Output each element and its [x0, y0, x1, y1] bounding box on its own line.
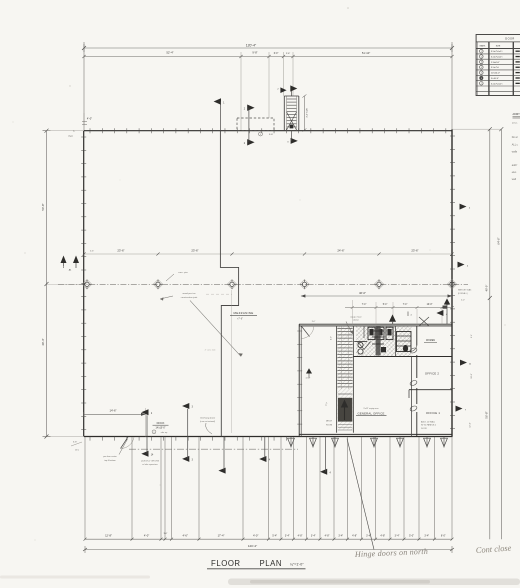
faint extension line x=231.5 [231, 290, 233, 433]
column centerline [58, 283, 468, 285]
svg-text:5'-4": 5'-4" [272, 534, 277, 537]
office room labels [326, 372, 440, 430]
svg-text:equip. mezz: equip. mezz [350, 316, 361, 318]
svg-text:4'-6": 4'-6" [183, 533, 188, 537]
svg-text:49'-4": 49'-4" [41, 338, 45, 345]
keynote arrow at x=224 [218, 437, 225, 474]
east wall [450, 130, 455, 437]
drawing title FLOOR PLAN [207, 559, 306, 569]
office east interior wall [412, 326, 417, 437]
svg-text:12'-8": 12'-8" [470, 422, 472, 428]
hinge doors leader line [347, 439, 374, 550]
overhang note [200, 416, 216, 434]
keynote arrow pair at x=187.7 [182, 403, 194, 462]
svg-text:3'-4" CLR: 3'-4" CLR [307, 108, 309, 118]
svg-text:4: 4 [411, 314, 413, 316]
east dimension line 64'-6" [496, 127, 503, 539]
svg-text:(can not extend): (can not extend) [200, 420, 215, 423]
left bottom corner annotations [71, 441, 82, 451]
svg-text:4: 4 [481, 67, 482, 69]
svg-text:A4: A4 [69, 269, 72, 272]
office1/office2 dividing wall [409, 389, 453, 391]
svg-text:4'-8": 4'-8" [380, 534, 385, 537]
svg-text:10'-0": 10'-0" [427, 304, 433, 306]
door symbol ellipses [409, 347, 417, 354]
svg-text:5'-0": 5'-0" [461, 300, 465, 302]
keynote arrows along east wall [456, 204, 472, 412]
svg-text:4: 4 [467, 265, 469, 267]
svg-text:above: above [353, 320, 360, 322]
svg-text:3'-4": 3'-4" [395, 534, 400, 537]
extension line stair right x=293 [292, 52, 294, 96]
svg-text:40'-0": 40'-0" [485, 285, 489, 292]
svg-text:5: 5 [481, 72, 482, 74]
svg-text:9'x12' equip area: 9'x12' equip area [363, 408, 379, 410]
interior stair treads [337, 327, 352, 430]
svg-text:OFFICE 1: OFFICE 1 [426, 411, 440, 415]
office north wall [299, 324, 453, 326]
svg-text:5'-6": 5'-6" [90, 250, 94, 252]
svg-text:GENERAL OFFICE: GENERAL OFFICE [357, 411, 384, 415]
column C3 [227, 279, 237, 289]
hollow door triangles below office south wall [288, 437, 448, 448]
svg-text:9'-0": 9'-0" [326, 402, 329, 406]
restroom fixtures [354, 327, 411, 354]
svg-text:add f: add f [512, 164, 518, 167]
south dimension line with ticks [84, 533, 454, 541]
svg-text:OFFICE 2: OFFICE 2 [425, 372, 439, 376]
svg-text:2'-8x6'-8": 2'-8x6'-8" [491, 62, 500, 64]
left office room annotations [306, 321, 333, 406]
apron dash-dot line south [129, 448, 298, 450]
door schedule table [476, 35, 520, 96]
svg-text:+7'-6": +7'-6" [237, 318, 243, 320]
note: wood post on construction joint w/ leader [160, 292, 243, 356]
svg-text:4'-0": 4'-0" [87, 117, 92, 121]
svg-text:wood post on: wood post on [182, 292, 196, 295]
svg-text:construction joint: construction joint [181, 296, 198, 299]
svg-text:23'-6": 23'-6" [411, 248, 418, 252]
svg-text:(FOR ALL): (FOR ALL) [458, 292, 468, 295]
svg-text:PLAN: PLAN [260, 559, 283, 568]
general notes block (clipped at right edge) [512, 113, 520, 181]
svg-text:52'-4": 52'-4" [166, 51, 173, 55]
svg-text:per door center: per door center [103, 455, 117, 458]
svg-text:ALL c: ALL c [512, 144, 519, 147]
svg-text:3'-0x7'-0x1¾: 3'-0x7'-0x1¾ [491, 55, 503, 58]
svg-text:(revis: (revis [512, 121, 518, 124]
svg-text:7: 7 [481, 83, 482, 85]
svg-text:MEZZANINE: MEZZANINE [233, 311, 253, 315]
svg-text:3'-0x7'-0x1¾: 3'-0x7'-0x1¾ [491, 82, 503, 85]
svg-text:top & bottom: top & bottom [104, 459, 116, 462]
restroom door swings [358, 342, 409, 353]
keynote arrows above office [389, 298, 450, 326]
keynote arrow 1 at north wall [214, 98, 226, 131]
svg-text:3'-4": 3'-4" [311, 534, 316, 537]
svg-text:Hinge doors on north: Hinge doors on north [354, 547, 428, 559]
svg-text:3: 3 [192, 407, 194, 409]
svg-text:16'±: 16'± [75, 450, 80, 452]
svg-text:DOOR: DOOR [505, 36, 514, 40]
svg-text:2: 2 [481, 56, 482, 58]
stair clear dimension 3'-4" [302, 95, 308, 132]
svg-text:5'-4": 5'-4" [383, 304, 388, 306]
restroom cross hatch [356, 327, 412, 357]
svg-text:1: 1 [481, 51, 482, 53]
keynote arrow pair at x=147 [141, 409, 154, 457]
keynote arrow 2 above north wall [244, 105, 255, 132]
extension line NE corner [451, 42, 453, 130]
svg-text:3'-0x7'-0: 3'-0x7'-0 [491, 67, 500, 69]
svg-text:17'-4": 17'-4" [218, 533, 225, 537]
svg-text:14'x10'-0": 14'x10'-0" [156, 428, 166, 430]
column C6 [447, 279, 457, 289]
svg-text:3'-4": 3'-4" [338, 534, 343, 537]
stair direction arrow [341, 400, 348, 421]
svg-text:4'-0": 4'-0" [253, 533, 258, 537]
svg-text:14'-6": 14'-6" [109, 408, 116, 412]
svg-text:DOOR: DOOR [421, 428, 427, 430]
dock label [152, 421, 168, 434]
exterior stair at north wall [284, 85, 299, 130]
dock dimension 14'-6" [84, 408, 146, 437]
svg-text:3'-8": 3'-8" [73, 441, 78, 443]
svg-text:ADD'L 1/2 WALL: ADD'L 1/2 WALL [421, 420, 435, 423]
top sub dimension line (52'-4", 9'-8", 6'-0", 2'-6", 51'-10") [82, 51, 453, 59]
svg-text:conc. pier: conc. pier [178, 271, 188, 274]
svg-text:SIZE: SIZE [496, 46, 501, 48]
svg-text:9'-8": 9'-8" [252, 51, 257, 55]
svg-text:wall: wall [512, 178, 517, 181]
room label at lunch room [424, 340, 437, 342]
svg-text:4'-8": 4'-8" [352, 534, 357, 537]
svg-text:6: 6 [481, 78, 482, 80]
keynote arrow at x=325.6 [320, 437, 332, 475]
svg-text:9: 9 [154, 432, 155, 434]
svg-text:4'-8": 4'-8" [325, 534, 330, 537]
notes right of office NE corner [458, 288, 473, 427]
svg-text:ROOM: ROOM [326, 424, 333, 426]
west overall dimension line [41, 129, 84, 439]
svg-text:DOCK: DOCK [157, 421, 165, 425]
keynote arrow below stair [287, 131, 298, 144]
svg-text:50'-8": 50'-8" [41, 203, 45, 210]
svg-text:12'-8": 12'-8" [105, 533, 112, 537]
restroom partition walls [353, 326, 452, 357]
keynote arrow at x=264.8 [259, 437, 271, 463]
svg-text:2: 2 [151, 413, 153, 415]
svg-text:9: 9 [260, 134, 261, 136]
interior stair dark landing [338, 394, 352, 430]
svg-text:Overhang above: Overhang above [200, 416, 216, 419]
svg-text:4: 4 [469, 207, 471, 209]
svg-text:3'-4": 3'-4" [471, 334, 473, 338]
mezzanine edge step line [220, 131, 238, 437]
svg-text:1: 1 [223, 101, 225, 104]
svg-text:5'-0": 5'-0" [409, 534, 414, 537]
office interior wall x=336.6 (stair west) [336, 326, 338, 433]
column C4 [300, 279, 310, 289]
svg-text:3: 3 [481, 62, 482, 64]
svg-text:6'-0": 6'-0" [274, 53, 279, 55]
south wall [84, 434, 453, 440]
svg-text:4: 4 [330, 473, 332, 475]
svg-text:7'-4": 7'-4" [403, 304, 408, 306]
keynote arrow 2 below north wall [244, 131, 255, 146]
svg-text:FLOOR: FLOOR [211, 559, 241, 568]
svg-text:4'-8": 4'-8" [298, 534, 303, 537]
svg-text:7: 7 [465, 409, 467, 411]
east dimension line 56'-8" [485, 127, 492, 539]
svg-text:23'-6": 23'-6" [191, 248, 198, 252]
extension line NW corner [83, 42, 85, 131]
extension line x=269 [268, 52, 270, 118]
extension line left jamb x=241 [240, 52, 242, 131]
svg-text:MECH: MECH [326, 421, 332, 423]
svg-text:120'-4": 120'-4" [248, 544, 257, 548]
svg-text:4" conc slab: 4" conc slab [205, 350, 217, 352]
svg-text:3'-0": 3'-0" [312, 321, 316, 323]
svg-text:elec.: elec. [512, 171, 517, 174]
svg-text:3'-4": 3'-4" [424, 534, 429, 537]
svg-text:w/ elec operators: w/ elec operators [142, 463, 157, 466]
door leaf at dock west [121, 437, 135, 449]
office dimension line 46'-0" [301, 291, 452, 298]
north wall corner detail 4'-0" note [68, 113, 92, 138]
office west wall [297, 324, 302, 436]
svg-text:3'-4": 3'-4" [366, 534, 371, 537]
svg-text:(typ): (typ) [68, 135, 73, 138]
mezzanine label [230, 311, 257, 320]
pencil smudge bottom [0, 576, 520, 586]
svg-text:¼"=1'-0": ¼"=1'-0" [290, 562, 304, 566]
svg-text:elec op: elec op [161, 432, 168, 434]
svg-text:9'x10'-0": 9'x10'-0" [491, 78, 499, 80]
svg-text:7'-4": 7'-4" [362, 304, 367, 306]
svg-text:2'-6": 2'-6" [286, 53, 291, 55]
note equip mezz above office [346, 316, 362, 334]
south extension lines to dimension band [85, 437, 452, 539]
svg-text:51'-10": 51'-10" [362, 51, 370, 55]
small keynote arrow near stair top [277, 87, 286, 93]
column C2 [153, 279, 163, 289]
north wall [84, 128, 452, 133]
svg-text:walls: walls [512, 150, 518, 153]
svg-text:4: 4 [269, 460, 271, 462]
column C1 [82, 279, 92, 289]
svg-text:ADDIT: ADDIT [513, 113, 520, 116]
column C5 [374, 279, 384, 289]
svg-text:W/ GL PANELS &: W/ GL PANELS & [421, 424, 437, 427]
svg-text:24'-6": 24'-6" [337, 248, 344, 252]
svg-text:56'-8": 56'-8" [485, 411, 489, 418]
svg-text:WOMEN: WOMEN [426, 340, 435, 342]
circled 9 and note at wall opening [259, 132, 274, 136]
svg-text:3'-0": 3'-0" [164, 533, 168, 535]
section cut marker west [61, 256, 80, 272]
svg-text:3'-4": 3'-4" [285, 534, 290, 537]
restroom plumbing wall [372, 326, 384, 356]
svg-text:2: 2 [277, 89, 279, 91]
office west entry door swing [301, 326, 314, 339]
overall top dimension line 120'-4" [82, 44, 454, 52]
svg-text:MARK: MARK [480, 45, 486, 48]
svg-text:2: 2 [244, 107, 246, 110]
svg-text:2: 2 [244, 142, 246, 145]
faint dash at y=294 [206, 293, 232, 295]
svg-text:3: 3 [287, 142, 289, 144]
svg-text:Do al: Do al [512, 136, 518, 139]
svg-text:Cont close: Cont close [476, 544, 512, 555]
svg-text:10'-0": 10'-0" [471, 373, 473, 379]
south overall dimension line 120'-4" [83, 544, 454, 553]
svg-text:1: 1 [63, 267, 64, 269]
svg-text:10'x10'-0": 10'x10'-0" [491, 73, 500, 75]
svg-text:120'-4": 120'-4" [246, 44, 257, 48]
svg-text:4'-0": 4'-0" [331, 336, 333, 340]
svg-text:A: A [469, 362, 471, 365]
svg-text:4'-0": 4'-0" [144, 533, 149, 537]
svg-text:14: 14 [151, 455, 154, 457]
extension line stair left x=283.5 [283, 52, 285, 96]
svg-text:46'-0": 46'-0" [359, 291, 366, 295]
svg-text:(2) 8'x9'-0" OH DRS: (2) 8'x9'-0" OH DRS [141, 460, 159, 462]
office interior wall x=353.4 (stair east) [352, 326, 354, 433]
svg-text:23'-6": 23'-6" [117, 248, 124, 252]
east dimension extension line from NE corner [452, 128, 501, 130]
svg-text:3'-0x7'-0x1¾: 3'-0x7'-0x1¾ [491, 50, 503, 53]
svg-text:64'-6": 64'-6" [496, 237, 500, 244]
dashed future opening rectangle [237, 118, 274, 131]
interior dimension line 23'-6" bays [82, 248, 453, 255]
svg-text:3: 3 [192, 460, 194, 462]
west wall [81, 131, 86, 437]
note: conc pier [166, 271, 188, 281]
door swing office 2 [411, 346, 417, 352]
svg-text:±0'-0": ±0'-0" [306, 378, 311, 380]
office sub dimension row [345, 300, 454, 324]
notes below south wall [103, 439, 159, 466]
svg-text:SEE DET 3/A5: SEE DET 3/A5 [458, 288, 472, 291]
svg-text:6'-0": 6'-0" [441, 534, 446, 537]
svg-text:B.01: B.01 [269, 134, 274, 136]
